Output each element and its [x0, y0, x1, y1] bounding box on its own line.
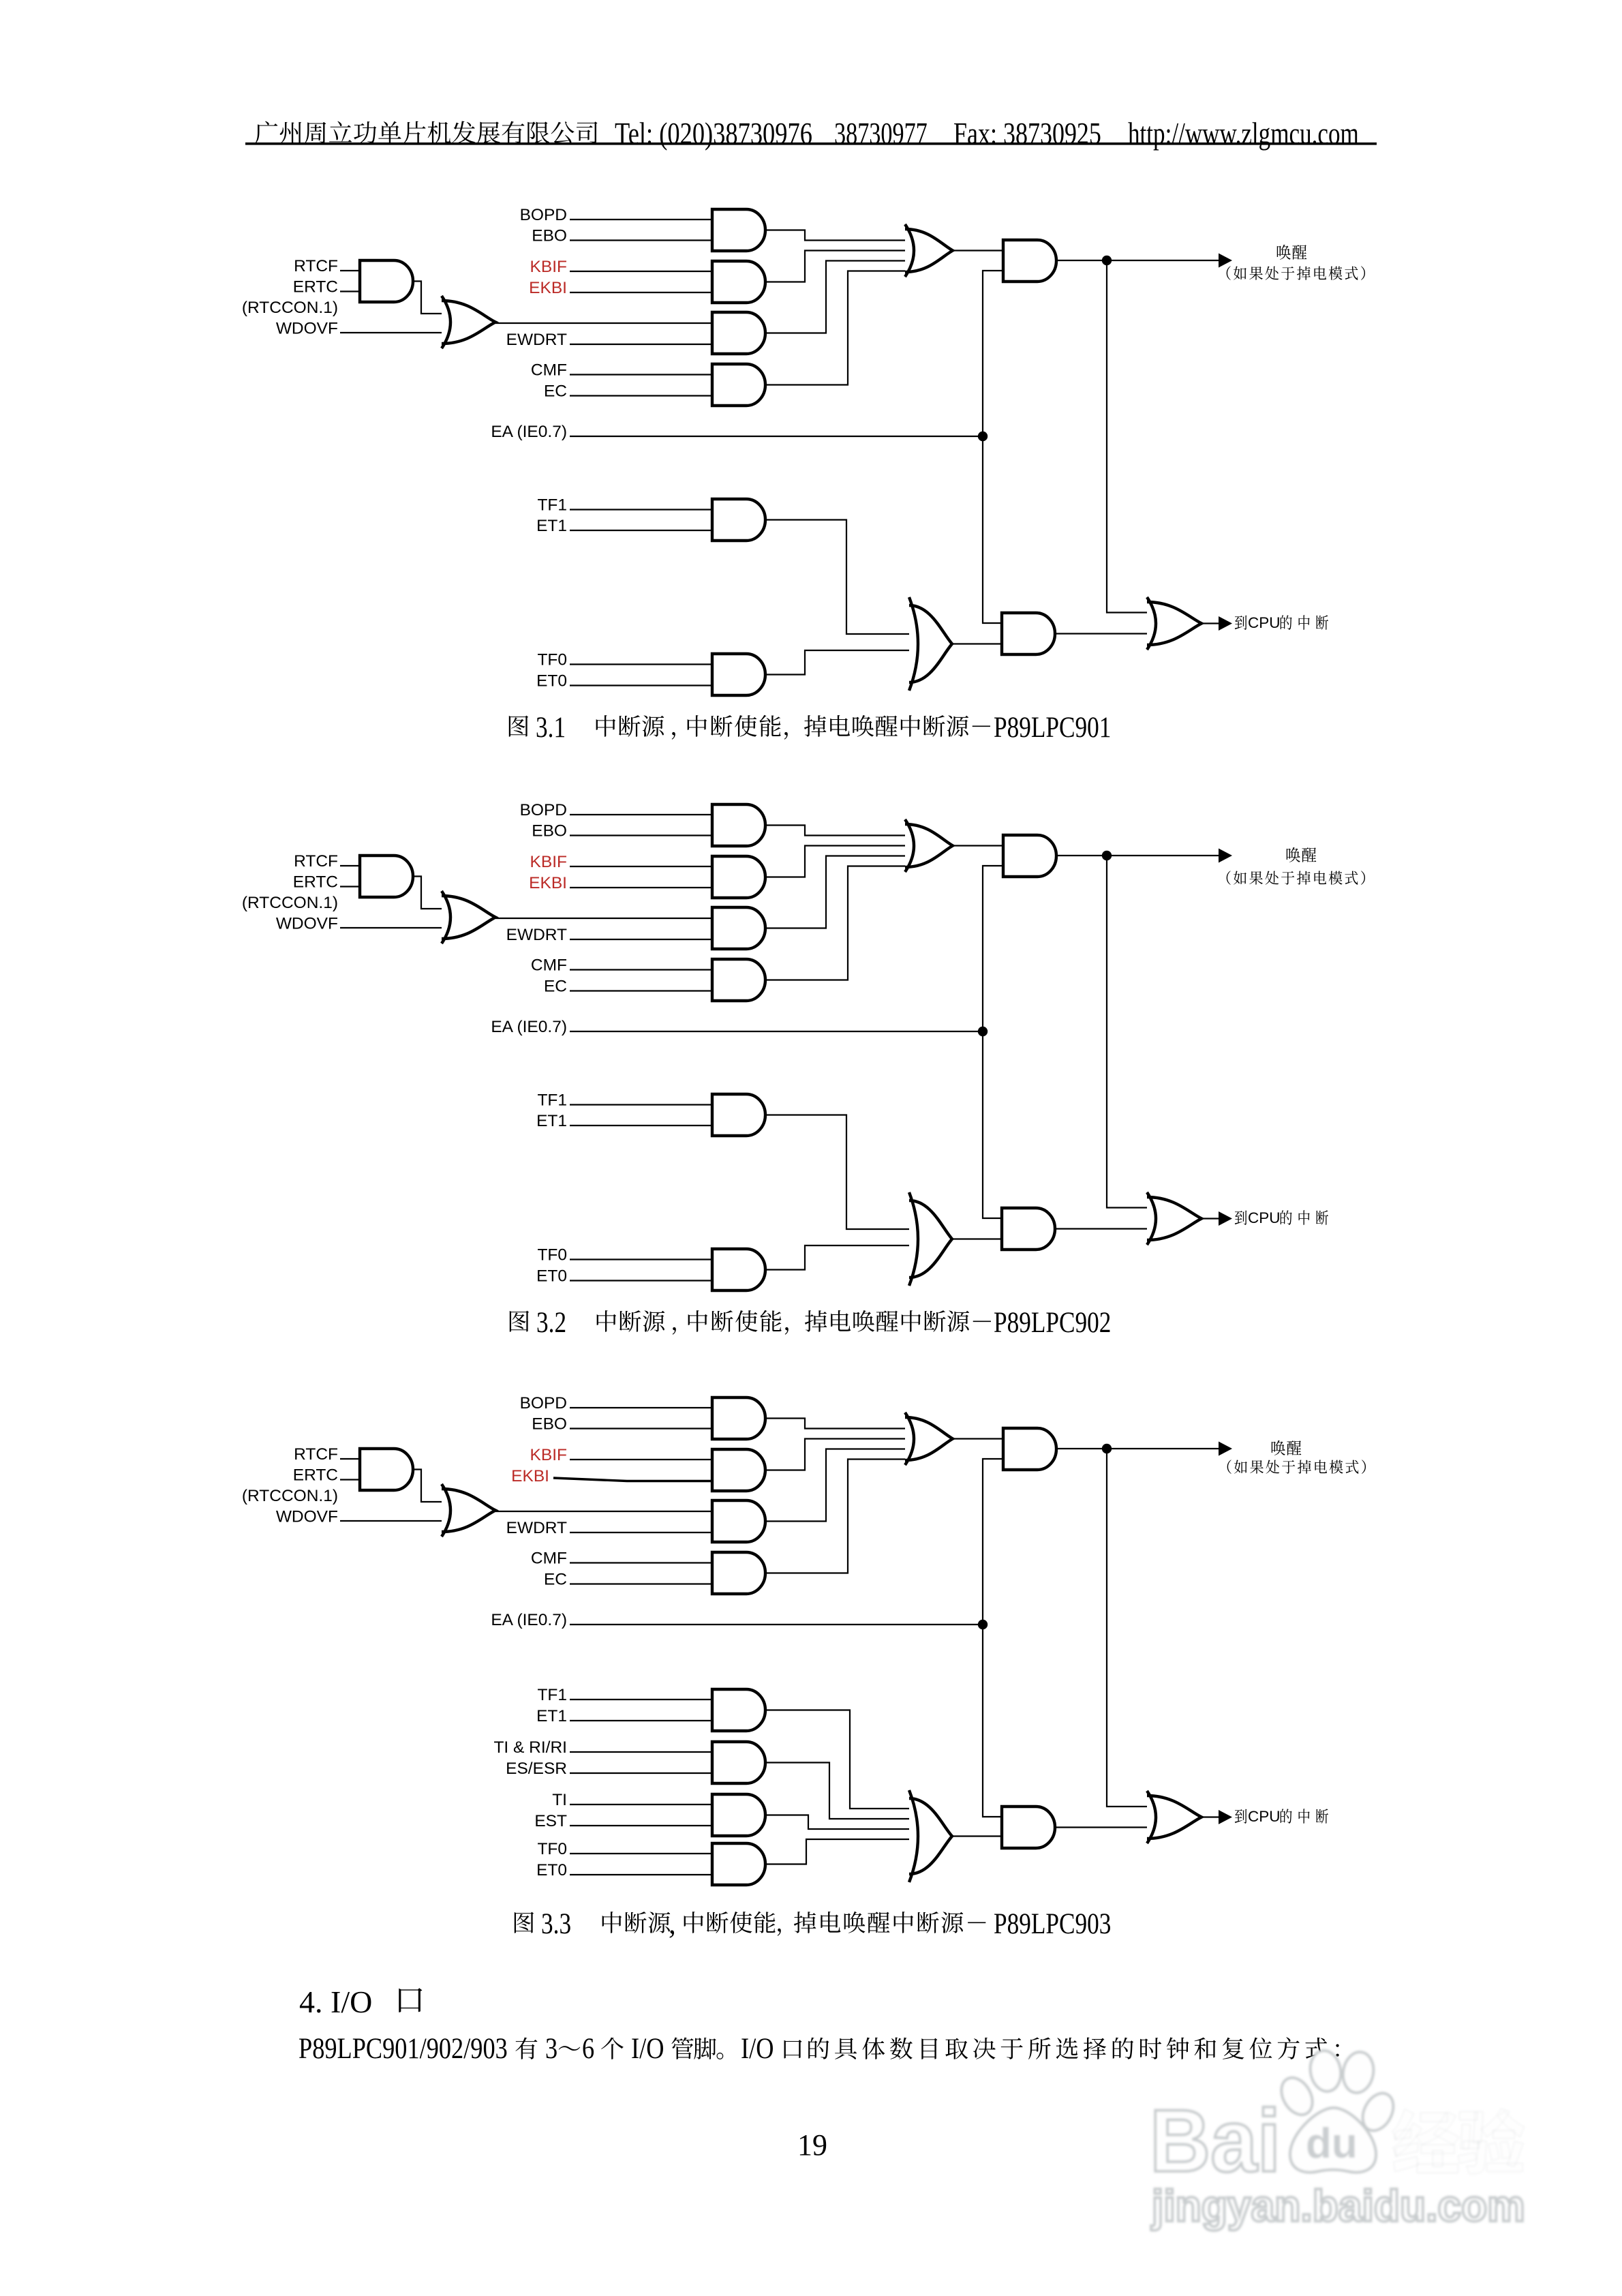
svg-text:(RTCCON.1): (RTCCON.1) — [242, 299, 338, 317]
svg-text:TI: TI — [552, 1791, 567, 1809]
svg-text:P89LPC901/902/903: P89LPC901/902/903 — [299, 2032, 508, 2065]
svg-text:CPU: CPU — [1248, 1808, 1281, 1825]
svg-text:WDOVF: WDOVF — [276, 1508, 338, 1526]
svg-text:EC: EC — [544, 382, 567, 401]
svg-text:38730977: 38730977 — [834, 116, 928, 151]
svg-text:CMF: CMF — [531, 361, 567, 380]
svg-text:BOPD: BOPD — [520, 206, 567, 224]
svg-text:KBIF: KBIF — [530, 853, 567, 871]
svg-text:EBO: EBO — [532, 1415, 567, 1434]
svg-text:ERTC: ERTC — [293, 278, 338, 297]
svg-text:EWDRT: EWDRT — [506, 1519, 567, 1537]
svg-text:ERTC: ERTC — [293, 873, 338, 892]
svg-text:EBO: EBO — [532, 822, 567, 841]
svg-text:EKBI: EKBI — [529, 874, 567, 892]
svg-text:CMF: CMF — [531, 956, 567, 975]
svg-text:3.2: 3.2 — [536, 1306, 566, 1339]
svg-text:EC: EC — [544, 978, 567, 996]
svg-text:WDOVF: WDOVF — [276, 915, 338, 933]
svg-text:4. I/O: 4. I/O — [299, 1984, 372, 2019]
svg-text:EWDRT: EWDRT — [506, 331, 567, 349]
svg-text:http://www.zlgmcu.com: http://www.zlgmcu.com — [1128, 117, 1359, 151]
svg-text:6: 6 — [582, 2032, 594, 2065]
svg-text:ERTC: ERTC — [293, 1466, 338, 1485]
svg-text:du: du — [1306, 2120, 1358, 2167]
svg-text:I/O: I/O — [631, 2032, 664, 2065]
svg-text:ET0: ET0 — [536, 672, 567, 691]
svg-text:3: 3 — [545, 2032, 557, 2065]
svg-text:TF0: TF0 — [537, 651, 567, 669]
svg-text:jingyan.baidu.com: jingyan.baidu.com — [1151, 2181, 1525, 2231]
svg-text:P89LPC902: P89LPC902 — [994, 1306, 1111, 1339]
svg-text:I/O: I/O — [741, 2032, 774, 2065]
svg-text:TF1: TF1 — [537, 496, 567, 515]
svg-text:TI & RI/RI: TI & RI/RI — [493, 1738, 567, 1757]
svg-text:TF1: TF1 — [537, 1091, 567, 1110]
svg-text:TF1: TF1 — [537, 1686, 567, 1704]
svg-text:Fax: 38730925: Fax: 38730925 — [953, 117, 1101, 151]
svg-text:BOPD: BOPD — [520, 1394, 567, 1413]
svg-text:EKBI: EKBI — [511, 1467, 549, 1485]
svg-text:EWDRT: EWDRT — [506, 926, 567, 944]
svg-text:EA (IE0.7): EA (IE0.7) — [491, 1018, 567, 1036]
svg-text:EA (IE0.7): EA (IE0.7) — [491, 423, 567, 441]
svg-text:RTCF: RTCF — [294, 257, 338, 275]
svg-text:EKBI: EKBI — [529, 279, 567, 297]
svg-text:CPU: CPU — [1248, 614, 1281, 631]
svg-text:KBIF: KBIF — [530, 258, 567, 276]
svg-text:3.3: 3.3 — [541, 1907, 571, 1940]
svg-text:RTCF: RTCF — [294, 852, 338, 871]
svg-text:KBIF: KBIF — [530, 1446, 567, 1464]
svg-text:EST: EST — [534, 1812, 567, 1830]
svg-text:,: , — [669, 1908, 676, 1940]
svg-text:ET0: ET0 — [536, 1267, 567, 1286]
svg-text:ET1: ET1 — [536, 1112, 567, 1130]
svg-text:TF0: TF0 — [537, 1246, 567, 1265]
svg-text:Bai: Bai — [1150, 2091, 1281, 2190]
svg-text:RTCF: RTCF — [294, 1445, 338, 1464]
svg-text:ES/ESR: ES/ESR — [506, 1759, 567, 1778]
svg-text:EBO: EBO — [532, 227, 567, 245]
svg-text:CMF: CMF — [531, 1550, 567, 1568]
svg-text:ET0: ET0 — [536, 1861, 567, 1879]
svg-text:3.1: 3.1 — [536, 711, 566, 744]
svg-text:WDOVF: WDOVF — [276, 320, 338, 338]
svg-text:(RTCCON.1): (RTCCON.1) — [242, 1487, 338, 1505]
svg-text:ET1: ET1 — [536, 517, 567, 535]
svg-text:(RTCCON.1): (RTCCON.1) — [242, 894, 338, 912]
svg-text:TF0: TF0 — [537, 1840, 567, 1858]
svg-text:P89LPC903: P89LPC903 — [994, 1907, 1111, 1940]
svg-text:CPU: CPU — [1248, 1209, 1281, 1226]
svg-text:P89LPC901: P89LPC901 — [994, 711, 1111, 744]
svg-text:BOPD: BOPD — [520, 801, 567, 819]
svg-text:Tel: (020)38730976: Tel: (020)38730976 — [615, 117, 812, 150]
svg-text:ET1: ET1 — [536, 1707, 567, 1725]
svg-text:19: 19 — [797, 2128, 827, 2162]
svg-text:EA (IE0.7): EA (IE0.7) — [491, 1611, 567, 1629]
svg-text:EC: EC — [544, 1571, 567, 1589]
